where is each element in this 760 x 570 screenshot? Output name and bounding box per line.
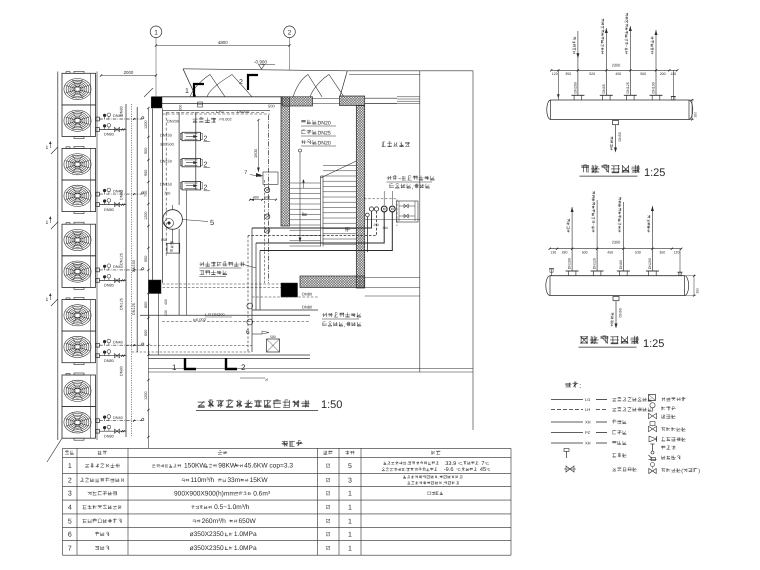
legend line: 信号管 [551, 441, 626, 446]
svg-text:DN80: DN80 [104, 133, 114, 137]
stair treads right flight [323, 166, 356, 245]
grid axis circle 2 [284, 26, 296, 38]
water collector 集水器 cylinder [550, 275, 685, 277]
svg-text:): ) [698, 469, 700, 475]
svg-text:,: , [443, 481, 444, 486]
legend: flexible joint [649, 395, 656, 401]
svg-text:1: 1 [348, 491, 352, 498]
svg-text:DN40: DN40 [113, 416, 123, 420]
svg-text:700: 700 [164, 192, 170, 196]
svg-text:280: 280 [562, 250, 568, 254]
water distributor 分水器 left small stub [557, 70, 559, 100]
right building wall vertical [419, 71, 421, 372]
svg-text:5: 5 [210, 218, 214, 227]
svg-text:900: 900 [144, 170, 148, 176]
svg-text:200: 200 [660, 72, 666, 76]
svg-text:2350: 2350 [612, 63, 621, 68]
svg-text:DN25: DN25 [318, 131, 331, 137]
svg-text:DN150: DN150 [160, 159, 172, 163]
svg-text:DN80: DN80 [302, 305, 313, 310]
svg-text:DN150: DN150 [160, 133, 172, 137]
dimension 2000 left [101, 75, 156, 77]
svg-text:1200: 1200 [144, 121, 148, 129]
dim 1500 [257, 120, 259, 172]
section mark 1 at y=221 [51, 222, 58, 229]
column mid-left (black) [149, 280, 162, 294]
water distributor 分水器 title [581, 165, 640, 173]
unit pair 4 branch pipes with valves [96, 339, 144, 363]
stair right wall (hatched) [356, 106, 364, 289]
wall lines right of lower hatched wall [365, 277, 420, 279]
svg-text:1200: 1200 [144, 212, 148, 220]
svg-text:DN20: DN20 [318, 141, 331, 147]
machine room top wall [152, 96, 283, 98]
vertical dimension chain x=148.4 [147, 107, 149, 448]
svg-text:DN50: DN50 [619, 308, 623, 317]
up arrow left flight [303, 180, 305, 188]
legend: flange check valve [649, 436, 657, 442]
water distributor 分水器 stub DN100 [650, 30, 663, 100]
svg-text:500: 500 [640, 72, 646, 76]
water collector 集水器 left small stub [551, 269, 553, 276]
svg-text:1200: 1200 [144, 392, 148, 400]
legend: pressure gauge [650, 403, 655, 408]
unit pair 2 branch pipes with valves [96, 188, 144, 212]
vertical pipe bundle down [251, 228, 253, 352]
water collector 集水器 stub DN200 [646, 206, 659, 276]
svg-text:ø350X2350: ø350X2350 [190, 545, 224, 552]
svg-text:1: 1 [348, 532, 352, 539]
pipe riser LG (supply) [125, 104, 127, 437]
svg-text:LG: LG [585, 397, 590, 402]
water collector 集水器 bottom drain DN50 [610, 297, 622, 329]
water distributor 分水器 stub DN200 [571, 31, 584, 100]
svg-text:DN150: DN150 [132, 260, 136, 272]
machine room left wall double line [152, 109, 154, 284]
legend: stop valve [649, 413, 657, 418]
electric control box [167, 243, 180, 253]
svg-text:5: 5 [348, 463, 352, 470]
svg-text:DN100: DN100 [652, 82, 656, 93]
svg-text:350: 350 [565, 72, 571, 76]
svg-text:DN80: DN80 [104, 284, 114, 288]
unit pair 5 branch pipes with valves [96, 415, 144, 439]
svg-text:DN200: DN200 [237, 110, 249, 114]
svg-text:(: ( [681, 469, 683, 475]
stair direction arrow [299, 152, 301, 242]
svg-text:500: 500 [268, 104, 275, 109]
svg-text:1: 1 [348, 518, 352, 525]
svg-text:7: 7 [68, 545, 72, 552]
circulating pump 2 (tag 2) [160, 158, 210, 168]
svg-text:ø350X2350: ø350X2350 [190, 531, 224, 538]
svg-text:DN125: DN125 [593, 258, 597, 269]
dims 400 430 near column [164, 299, 168, 305]
material table frame [63, 448, 512, 555]
legend: thermometer [652, 444, 654, 452]
fire control room label [382, 142, 410, 147]
svg-text:1:25: 1:25 [643, 338, 664, 350]
svg-text:DN65: DN65 [602, 84, 606, 93]
pump suction/discharge verticals [178, 112, 180, 205]
svg-text:6: 6 [246, 329, 250, 336]
equipment zone dashed boundary [165, 113, 167, 257]
svg-text:DN80: DN80 [120, 366, 124, 376]
valves on bundle [247, 303, 253, 309]
water distributor 分水器 cylinder [551, 99, 690, 101]
riser circles group [366, 213, 370, 217]
svg-text:1: 1 [348, 505, 352, 512]
header pipes top [163, 110, 271, 112]
svg-text:4: 4 [68, 505, 72, 512]
svg-text:300: 300 [179, 105, 183, 111]
table row 5: 全程综合水处理器 [68, 518, 352, 525]
section flag 1 top [194, 84, 204, 97]
svg-text:DN80: DN80 [302, 292, 313, 297]
svg-text:2: 2 [239, 79, 243, 86]
svg-text:DN125: DN125 [626, 82, 630, 93]
svg-text:L R DN200: L R DN200 [205, 312, 225, 317]
svg-text:DN80: DN80 [120, 106, 124, 116]
pipe riser LH (return, dashed) [131, 104, 133, 437]
svg-text:2000: 2000 [124, 70, 134, 75]
column stair-left (black) [281, 283, 298, 297]
water collector 集水器 stub DN125 [591, 191, 604, 275]
svg-text::: : [579, 381, 581, 390]
stair left wall (hatched) [281, 97, 290, 226]
top-right building edge [347, 70, 473, 72]
svg-text:DN80: DN80 [104, 359, 114, 363]
legend line: 空调冷热水供水管 [551, 397, 652, 402]
svg-text:500: 500 [264, 195, 270, 199]
svg-text:2: 2 [68, 478, 72, 485]
svg-text:98KW: 98KW [218, 463, 237, 470]
table remarks row3 [427, 492, 442, 495]
svg-text:DN40: DN40 [113, 340, 123, 344]
water collector 集水器 stub DN80 [617, 197, 630, 276]
svg-text:DN125: DN125 [132, 303, 136, 315]
main pipe run DN200 [140, 314, 310, 316]
svg-text:,: , [438, 475, 439, 480]
svg-text:3: 3 [68, 491, 72, 498]
legend: static balance valve [566, 466, 574, 472]
svg-text:0.5~1.0m³/h: 0.5~1.0m³/h [214, 504, 250, 511]
circulating pump 3 (tag 2) [160, 182, 210, 192]
heat pump unit platform right edge line [96, 72, 98, 441]
svg-text::: : [407, 461, 408, 466]
riser size labels [120, 106, 124, 116]
legend line: 膨胀管 [551, 430, 626, 435]
table row 3: 开式膨胀水箱 [68, 490, 352, 497]
note: first floor FCU supply/return [322, 313, 361, 318]
heat pump unit pair 5 (units 9,10) [62, 373, 96, 440]
water distributor 分水器 bottom drain DN50 [610, 121, 622, 153]
lower long wall (hatched) [300, 276, 365, 288]
water distributor 分水器 stub DN65 [600, 19, 613, 100]
water collector 集水器 dimension line [549, 240, 683, 255]
stair break diagonal [321, 161, 357, 178]
stair center divider [320, 176, 322, 247]
svg-text:400: 400 [164, 299, 168, 305]
svg-text:530: 530 [635, 250, 641, 254]
table row 4: 全自动软化水设备 [68, 504, 352, 511]
vertical pipe with valves near stair wall [267, 115, 269, 283]
svg-text:°C: °C [486, 467, 491, 472]
svg-text:i=0.002: i=0.002 [219, 118, 232, 122]
heat pump unit pair 4 (units 7,8) [62, 298, 96, 365]
main title [198, 400, 310, 408]
machine room bottom wall [149, 354, 311, 356]
unit pair 3 branch pipes with valves [96, 264, 144, 288]
svg-text:DN125: DN125 [120, 298, 124, 310]
table row 6: 分水器 [68, 531, 352, 538]
legend: water strainer [649, 455, 653, 459]
svg-text:DN20: DN20 [318, 121, 331, 127]
svg-text:1.0MPa: 1.0MPa [234, 545, 257, 552]
svg-text:260m³/h: 260m³/h [202, 518, 227, 525]
leader to material table corner [47, 438, 62, 462]
svg-text:650: 650 [144, 256, 148, 262]
svg-text:900: 900 [144, 148, 148, 154]
room label [193, 118, 216, 123]
svg-text:300: 300 [383, 226, 389, 230]
svg-text:120: 120 [674, 250, 680, 254]
svg-text:500: 500 [582, 250, 588, 254]
stair top wall left of door (hatched) [282, 97, 313, 106]
svg-text:500: 500 [270, 335, 276, 339]
svg-text:DN80: DN80 [104, 208, 114, 212]
svg-text:120: 120 [552, 72, 558, 76]
corridor lines bottom [149, 368, 474, 370]
svg-text:-9.6: -9.6 [444, 467, 454, 473]
far right building line [472, 71, 474, 430]
svg-text:520: 520 [589, 72, 595, 76]
table row 2: 冷热水变频循环水泵 [68, 477, 352, 484]
svg-text:800: 800 [144, 302, 148, 308]
heat pump unit platform left edge line [57, 72, 59, 441]
water distributor 分水器 diameter dim 350 [691, 100, 693, 120]
bypass detail box [397, 201, 419, 222]
svg-text:DN80: DN80 [120, 190, 124, 200]
stair door opening [313, 97, 340, 99]
legend line: 循环管 [551, 420, 626, 425]
water collector 集水器 diameter dim 350 [693, 276, 695, 296]
section flag 2 bottom [226, 358, 237, 369]
svg-text:5: 5 [68, 518, 72, 525]
svg-text:1.0MPa: 1.0MPa [234, 531, 257, 538]
water distributor 分水器 right small stub [672, 70, 674, 100]
svg-text:7: 7 [244, 170, 247, 176]
svg-text:DN200: DN200 [167, 119, 179, 123]
svg-text:LH: LH [585, 407, 590, 412]
svg-text:DN125: DN125 [120, 253, 124, 265]
svg-text:DN80: DN80 [619, 260, 623, 269]
riser bottom connection (dashed) [126, 345, 252, 347]
svg-text:2: 2 [241, 363, 246, 372]
svg-text:~: ~ [398, 177, 402, 183]
svg-text:°C,: °C, [456, 467, 461, 472]
svg-text:900X900X900(h)mm: 900X900X900(h)mm [174, 490, 235, 497]
svg-text:1500: 1500 [253, 148, 258, 158]
water treatment device (tag 5) [163, 210, 183, 230]
svg-text:2350: 2350 [612, 240, 621, 245]
svg-text:XH: XH [585, 441, 591, 446]
svg-text:4800: 4800 [218, 40, 228, 45]
material table title [282, 441, 303, 447]
table header [65, 451, 74, 455]
svg-text:6: 6 [68, 532, 72, 539]
legend: air vent [566, 451, 568, 458]
top-right wall with window [365, 97, 397, 99]
water collector 集水器 title [580, 336, 639, 344]
svg-text:L P2: L P2 [216, 110, 224, 114]
legend: motorized two-way valve [649, 426, 657, 431]
svg-text:PZ: PZ [585, 430, 591, 435]
svg-text:350: 350 [696, 288, 700, 294]
svg-text:DN100: DN100 [568, 258, 572, 269]
floor drain [267, 339, 280, 352]
svg-text::: : [405, 467, 406, 472]
svg-text:1: 1 [185, 88, 189, 95]
svg-text:450: 450 [615, 72, 621, 76]
svg-text:110m³/h: 110m³/h [191, 477, 215, 484]
svg-text:600: 600 [144, 330, 148, 336]
svg-text:350: 350 [659, 250, 665, 254]
heat pump unit pair 2 (units 3,4) [62, 146, 96, 213]
legend: motorized butterfly valve [649, 469, 656, 474]
svg-text:DN80: DN80 [104, 434, 114, 438]
table row 1: 空气源热泵机组 [68, 463, 352, 470]
note: fresh air unit in room [199, 262, 244, 267]
DN80 branch pipes to first floor FCU [252, 296, 318, 298]
window symbol [397, 97, 420, 104]
svg-text:150KW: 150KW [184, 463, 206, 470]
svg-text:°C: °C [485, 461, 490, 466]
section mark 1 at y=298 [51, 299, 58, 306]
svg-text:1: 1 [46, 145, 49, 151]
grid axis circle 1 [150, 26, 162, 38]
section mark 1 at y=146 [51, 147, 58, 154]
svg-text:1: 1 [46, 220, 49, 226]
svg-text:3: 3 [348, 478, 352, 485]
svg-text:°C,: °C, [458, 461, 463, 466]
svg-text:33m: 33m [227, 477, 240, 484]
svg-text:700: 700 [144, 191, 148, 197]
svg-text:DN150: DN150 [160, 183, 172, 187]
svg-text:45.6KW cop=3.3: 45.6KW cop=3.3 [244, 463, 293, 470]
svg-text:650W: 650W [239, 518, 257, 525]
svg-text:300 500: 300 500 [160, 143, 174, 147]
stair treads left flight [290, 183, 321, 246]
svg-text:DN50: DN50 [618, 132, 622, 141]
svg-text:DN200: DN200 [648, 258, 652, 269]
louver opening trapezoid with shrub fins [144, 69, 347, 97]
pipe riser third [136, 107, 138, 352]
circulating pump 1 (tag 2) [160, 132, 210, 142]
svg-text:i=0.002: i=0.002 [193, 317, 207, 322]
small jog detail [263, 172, 278, 184]
stair labels up/down [302, 212, 307, 216]
dashed boundary around risers [364, 199, 397, 226]
svg-text:1: 1 [154, 29, 158, 36]
unit pair 1 branch pipes with valves [96, 113, 144, 137]
pipe elbows from risers [248, 211, 392, 252]
svg-text:450: 450 [607, 250, 613, 254]
column top-left (black) [151, 97, 162, 108]
heat pump unit pair 1 (units 1,2) [62, 71, 96, 138]
svg-text:350: 350 [694, 112, 698, 118]
legend line: 空调冷热水回水管 [551, 407, 652, 412]
svg-text:1:50: 1:50 [321, 399, 342, 411]
svg-text:33.9: 33.9 [445, 461, 456, 467]
stair corner wall top-right (hatched L) [340, 96, 365, 106]
water distributor 分水器 dimension line [550, 63, 678, 76]
water collector 集水器 stub DN100 [566, 207, 579, 276]
svg-text:1: 1 [348, 545, 352, 552]
water distributor 分水器 stub DN125 [624, 13, 637, 100]
dimension 4800 between axes [156, 45, 290, 47]
section flag 1 bottom [185, 358, 196, 369]
svg-text:0.6m³: 0.6m³ [253, 490, 271, 497]
svg-text:DN200: DN200 [573, 82, 577, 93]
svg-text:1: 1 [68, 463, 72, 470]
svg-text:650: 650 [161, 238, 167, 242]
svg-text:15KW: 15KW [250, 477, 269, 484]
heat pump unit pair 3 (units 5,6) [62, 222, 96, 289]
svg-text:1:25: 1:25 [644, 167, 665, 179]
water collector 集水器 right small stub [679, 249, 681, 276]
svg-text:-0.900: -0.900 [254, 60, 267, 65]
dashed pipes along lower wall going left [163, 283, 282, 285]
svg-text:1: 1 [46, 297, 49, 303]
svg-text:2: 2 [288, 29, 292, 36]
table row 7: 集水器 [68, 545, 352, 552]
section flag 2 top [248, 75, 258, 90]
svg-text:130: 130 [550, 250, 556, 254]
svg-text:XH: XH [585, 420, 591, 425]
svg-text:1: 1 [172, 363, 177, 372]
